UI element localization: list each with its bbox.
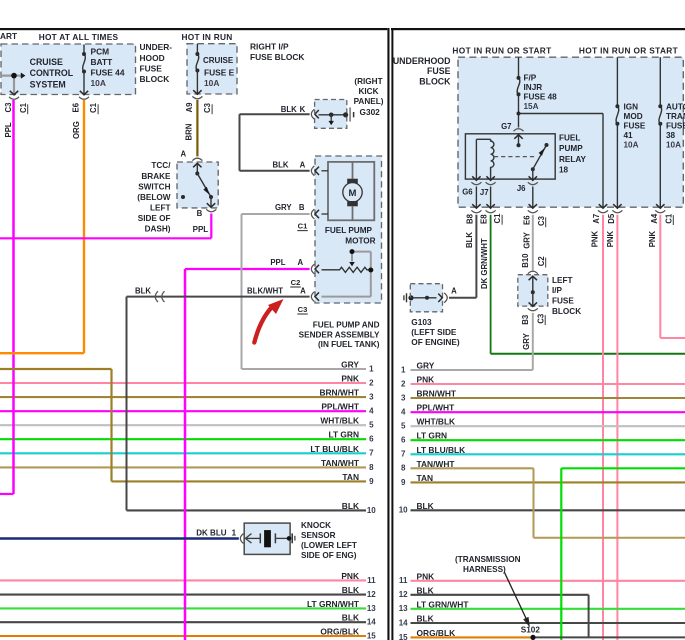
svg-text:PNK: PNK [606, 230, 615, 247]
svg-text:FUSE BLOCK: FUSE BLOCK [250, 52, 304, 62]
svg-text:KNOCK: KNOCK [301, 521, 331, 530]
svg-text:LT GRN/WHT: LT GRN/WHT [307, 599, 360, 609]
svg-text:(IN FUEL TANK): (IN FUEL TANK) [318, 340, 380, 349]
svg-text:PPL: PPL [193, 225, 209, 234]
svg-text:C1: C1 [89, 102, 98, 113]
svg-text:PNK: PNK [341, 374, 359, 384]
svg-text:HOT IN RUN OR START: HOT IN RUN OR START [452, 46, 551, 56]
svg-text:7: 7 [369, 449, 374, 458]
svg-text:SWITCH: SWITCH [138, 182, 170, 191]
svg-text:4: 4 [401, 408, 406, 417]
svg-text:WHT/BLK: WHT/BLK [320, 416, 359, 426]
svg-text:INJR: INJR [524, 83, 543, 92]
svg-text:IGN: IGN [624, 103, 639, 112]
svg-text:PPL: PPL [4, 122, 13, 137]
svg-text:PNK: PNK [417, 571, 435, 581]
svg-text:LEFT: LEFT [552, 276, 572, 285]
svg-text:LT GRN/WHT: LT GRN/WHT [417, 599, 470, 609]
svg-text:1: 1 [369, 364, 374, 373]
svg-text:HARNESS): HARNESS) [463, 565, 506, 574]
svg-text:FUEL: FUEL [559, 134, 580, 143]
svg-text:FUSE 48: FUSE 48 [524, 92, 558, 101]
svg-text:BRN: BRN [184, 123, 193, 140]
svg-text:BLK/WHT: BLK/WHT [247, 287, 283, 296]
svg-text:B8: B8 [465, 213, 474, 224]
svg-text:G103: G103 [411, 317, 432, 327]
svg-text:ART: ART [0, 31, 17, 41]
svg-text:BRN/WHT: BRN/WHT [417, 389, 457, 399]
svg-text:C1: C1 [664, 213, 673, 224]
svg-text:TAN: TAN [342, 472, 359, 482]
svg-text:A: A [300, 160, 306, 169]
svg-text:G302: G302 [360, 107, 381, 117]
svg-text:FUSE: FUSE [666, 122, 685, 131]
svg-text:CONTROL: CONTROL [30, 68, 74, 78]
svg-text:E6: E6 [71, 102, 80, 112]
svg-text:TAN: TAN [417, 473, 434, 483]
svg-text:F/P: F/P [524, 74, 537, 83]
svg-text:BRN/WHT: BRN/WHT [319, 388, 359, 398]
svg-text:ORG: ORG [72, 121, 81, 139]
svg-text:PPL/WHT: PPL/WHT [321, 402, 360, 412]
svg-text:8: 8 [369, 463, 374, 472]
svg-text:E6: E6 [522, 215, 531, 225]
svg-text:J6: J6 [517, 184, 526, 193]
svg-text:38: 38 [666, 131, 676, 140]
svg-text:S102: S102 [521, 626, 541, 635]
svg-text:HOT IN RUN OR START: HOT IN RUN OR START [579, 46, 678, 56]
svg-text:5: 5 [401, 422, 406, 431]
svg-text:9: 9 [369, 477, 374, 486]
svg-text:C3: C3 [298, 305, 308, 314]
svg-text:BLK: BLK [272, 160, 288, 169]
svg-text:UNDERHOOD: UNDERHOOD [393, 56, 451, 66]
svg-text:CRUISE: CRUISE [30, 57, 63, 67]
svg-text:ORG/BLK: ORG/BLK [417, 628, 456, 638]
svg-text:A: A [297, 258, 303, 267]
svg-text:(LOWER LEFT: (LOWER LEFT [301, 541, 357, 550]
svg-text:G7: G7 [501, 122, 511, 131]
svg-text:12: 12 [367, 590, 376, 599]
svg-text:3: 3 [369, 393, 374, 402]
svg-text:8: 8 [401, 464, 406, 473]
svg-text:FUEL PUMP: FUEL PUMP [325, 226, 373, 235]
svg-text:FUEL PUMP AND: FUEL PUMP AND [313, 321, 380, 330]
svg-text:C3: C3 [537, 215, 546, 226]
svg-text:PNK: PNK [341, 571, 359, 581]
svg-text:11: 11 [367, 576, 376, 585]
svg-text:DASH): DASH) [145, 225, 171, 234]
svg-text:A9: A9 [185, 102, 194, 113]
svg-text:10: 10 [399, 506, 408, 515]
svg-text:FUSE: FUSE [624, 122, 646, 131]
svg-text:C2: C2 [291, 278, 301, 287]
svg-text:GRY: GRY [417, 361, 435, 371]
svg-text:OF ENGINE): OF ENGINE) [411, 337, 460, 347]
svg-text:9: 9 [401, 478, 406, 487]
svg-text:B: B [197, 209, 203, 218]
svg-text:2: 2 [369, 378, 374, 387]
svg-text:15: 15 [367, 631, 376, 640]
svg-text:GRY: GRY [523, 231, 532, 248]
svg-text:MOD: MOD [624, 112, 643, 121]
svg-text:PANEL): PANEL) [354, 97, 384, 106]
svg-text:5: 5 [369, 421, 374, 430]
svg-text:7: 7 [401, 450, 406, 459]
svg-text:C3: C3 [4, 102, 13, 113]
svg-text:C1: C1 [493, 213, 502, 224]
svg-text:12: 12 [399, 590, 408, 599]
svg-text:GRY: GRY [522, 332, 531, 349]
svg-text:HOOD: HOOD [140, 53, 165, 63]
svg-text:E8: E8 [479, 214, 488, 224]
svg-text:3: 3 [401, 393, 406, 402]
svg-text:M: M [349, 188, 357, 199]
svg-text:LT GRN: LT GRN [328, 430, 359, 440]
svg-text:13: 13 [367, 604, 376, 613]
svg-text:GRY: GRY [341, 360, 359, 370]
svg-text:14: 14 [399, 618, 408, 627]
svg-text:1: 1 [401, 365, 406, 374]
svg-text:TAN/WHT: TAN/WHT [417, 459, 456, 469]
svg-text:K: K [300, 105, 306, 114]
svg-text:15A: 15A [524, 102, 539, 111]
svg-text:WHT/BLK: WHT/BLK [417, 417, 456, 427]
svg-text:FUSE 44: FUSE 44 [91, 68, 125, 78]
svg-text:GRY: GRY [275, 203, 292, 212]
svg-text:TCC/: TCC/ [151, 161, 171, 170]
svg-text:BLOCK: BLOCK [419, 76, 451, 86]
svg-text:FUSE: FUSE [140, 63, 163, 73]
svg-text:LT BLU/BLK: LT BLU/BLK [417, 445, 466, 455]
svg-text:TRANS: TRANS [666, 112, 685, 121]
svg-text:BRAKE: BRAKE [141, 172, 171, 181]
svg-text:PPL/WHT: PPL/WHT [417, 403, 456, 413]
svg-text:6: 6 [369, 435, 374, 444]
svg-text:C2: C2 [537, 256, 546, 267]
svg-text:C3: C3 [536, 313, 545, 324]
svg-text:BLOCK: BLOCK [140, 74, 170, 84]
svg-text:10A: 10A [624, 141, 639, 150]
svg-text:TAN/WHT: TAN/WHT [321, 458, 360, 468]
svg-text:PUMP: PUMP [559, 144, 583, 153]
svg-text:LT GRN: LT GRN [417, 431, 448, 441]
svg-text:A: A [300, 287, 306, 296]
svg-text:SENSOR: SENSOR [301, 531, 336, 540]
svg-text:1: 1 [232, 529, 237, 538]
svg-text:BLK: BLK [342, 585, 359, 595]
svg-text:PNK: PNK [417, 375, 435, 385]
svg-text:BLK: BLK [135, 287, 151, 296]
svg-text:C1: C1 [19, 102, 28, 113]
svg-text:(RIGHT: (RIGHT [354, 77, 382, 86]
svg-text:KICK: KICK [358, 87, 378, 96]
svg-text:FUSE: FUSE [552, 297, 574, 306]
svg-text:(TRANSMISSION: (TRANSMISSION [455, 555, 521, 564]
svg-text:ORG/BLK: ORG/BLK [320, 627, 359, 637]
svg-text:UNDER-: UNDER- [140, 42, 173, 52]
svg-text:J7: J7 [480, 188, 489, 197]
svg-text:SIDE OF: SIDE OF [138, 214, 171, 223]
svg-text:BLK: BLK [417, 501, 434, 511]
svg-text:13: 13 [399, 604, 408, 613]
svg-text:BLK: BLK [342, 613, 359, 623]
svg-text:11: 11 [399, 576, 408, 585]
svg-text:HOT AT ALL TIMES: HOT AT ALL TIMES [39, 32, 119, 42]
svg-text:10A: 10A [204, 78, 219, 88]
svg-text:SYSTEM: SYSTEM [30, 80, 66, 90]
svg-text:LEFT: LEFT [150, 203, 170, 212]
svg-text:MOTOR: MOTOR [345, 236, 375, 245]
svg-text:B: B [299, 203, 305, 212]
svg-text:4: 4 [369, 407, 374, 416]
svg-text:DK GRN/WHT: DK GRN/WHT [480, 238, 489, 289]
svg-text:10A: 10A [666, 141, 681, 150]
svg-text:BLK: BLK [281, 105, 297, 114]
svg-text:(LEFT SIDE: (LEFT SIDE [411, 327, 457, 337]
svg-text:10A: 10A [91, 78, 106, 88]
svg-text:AUTO: AUTO [666, 103, 685, 112]
svg-text:B3: B3 [521, 314, 530, 325]
svg-text:SENDER ASSEMBLY: SENDER ASSEMBLY [299, 330, 380, 339]
svg-text:A4: A4 [650, 213, 659, 224]
svg-text:HOT IN RUN: HOT IN RUN [182, 32, 233, 42]
svg-text:RIGHT I/P: RIGHT I/P [250, 42, 289, 52]
svg-text:C1: C1 [298, 222, 308, 231]
svg-text:LT BLU/BLK: LT BLU/BLK [310, 444, 359, 454]
svg-text:15: 15 [399, 633, 408, 640]
svg-text:18: 18 [559, 166, 569, 175]
svg-text:G6: G6 [462, 188, 473, 197]
svg-text:CRUISE: CRUISE [203, 56, 234, 65]
svg-text:10: 10 [367, 506, 376, 515]
svg-text:(BELOW: (BELOW [137, 193, 170, 202]
svg-text:PPL: PPL [270, 258, 285, 267]
svg-text:BLK: BLK [417, 614, 434, 624]
svg-text:BLK: BLK [417, 585, 434, 595]
svg-text:A: A [451, 287, 457, 296]
svg-text:BLOCK: BLOCK [552, 307, 581, 316]
svg-text:PNK: PNK [590, 230, 599, 247]
svg-text:41: 41 [624, 131, 634, 140]
svg-text:D5: D5 [607, 213, 616, 224]
svg-text:DK BLU: DK BLU [196, 529, 226, 538]
svg-text:PCM: PCM [91, 46, 110, 56]
svg-text:BLK: BLK [342, 501, 359, 511]
svg-text:2: 2 [401, 379, 406, 388]
svg-text:14: 14 [367, 618, 376, 627]
svg-text:A: A [181, 149, 187, 158]
svg-text:SIDE OF ENG): SIDE OF ENG) [301, 551, 357, 560]
svg-text:BATT: BATT [91, 57, 114, 67]
svg-text:B10: B10 [521, 253, 530, 268]
svg-text:FUSE E: FUSE E [204, 68, 235, 78]
svg-text:RELAY: RELAY [559, 155, 587, 164]
svg-text:A7: A7 [592, 214, 601, 224]
svg-text:FUSE: FUSE [427, 66, 451, 76]
svg-text:6: 6 [401, 436, 406, 445]
svg-text:PNK: PNK [648, 230, 657, 247]
svg-text:I/P: I/P [552, 286, 563, 295]
svg-text:BLK: BLK [465, 232, 474, 248]
svg-text:C3: C3 [203, 102, 212, 113]
